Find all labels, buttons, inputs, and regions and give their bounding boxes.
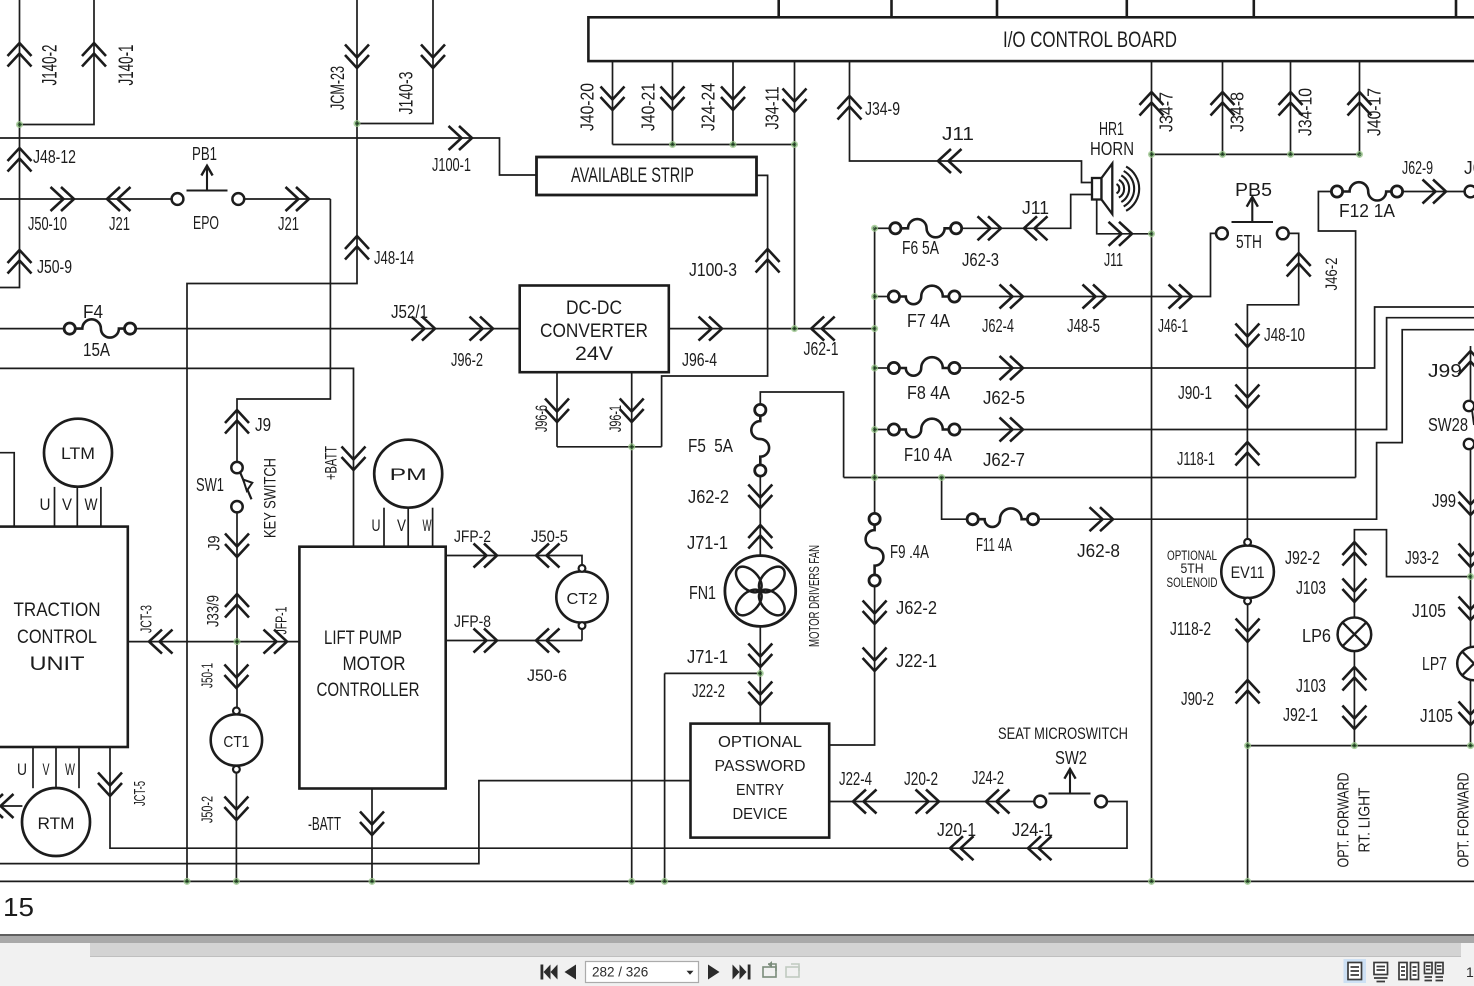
svg-text:OPT. FORWARD: OPT. FORWARD xyxy=(1456,773,1473,868)
svg-text:F4: F4 xyxy=(83,302,103,322)
svg-text:SW28: SW28 xyxy=(1428,415,1468,435)
svg-text:J62-1: J62-1 xyxy=(804,339,839,359)
svg-text:J40-20: J40-20 xyxy=(577,83,597,131)
svg-text:F5 5A: F5 5A xyxy=(688,436,733,456)
svg-text:J92-2: J92-2 xyxy=(1285,548,1320,568)
svg-text:J62: J62 xyxy=(1464,158,1474,178)
svg-text:J99: J99 xyxy=(1432,491,1456,511)
svg-text:F11 4A: F11 4A xyxy=(976,535,1012,555)
svg-text:RTM: RTM xyxy=(38,814,75,833)
svg-text:J62-2: J62-2 xyxy=(896,598,937,618)
svg-text:J34-7: J34-7 xyxy=(1156,92,1176,132)
svg-text:J46-1: J46-1 xyxy=(1158,316,1188,336)
svg-text:W: W xyxy=(85,495,98,514)
svg-text:I/O CONTROL BOARD: I/O CONTROL BOARD xyxy=(1003,27,1177,52)
svg-text:F8 4A: F8 4A xyxy=(907,383,950,403)
svg-text:LP6: LP6 xyxy=(1302,626,1331,646)
svg-text:J62-9: J62-9 xyxy=(1402,158,1433,178)
svg-text:J62-7: J62-7 xyxy=(983,450,1025,470)
svg-text:J46-2: J46-2 xyxy=(1322,258,1341,291)
svg-text:J34-11: J34-11 xyxy=(762,87,782,130)
svg-text:10: 10 xyxy=(1466,964,1474,980)
svg-text:J20-1: J20-1 xyxy=(937,820,976,840)
svg-text:U: U xyxy=(17,760,27,779)
svg-text:ENTRY: ENTRY xyxy=(736,782,784,799)
svg-text:JCT-3: JCT-3 xyxy=(139,605,156,633)
svg-text:J22-4: J22-4 xyxy=(839,769,872,789)
svg-text:J96-4: J96-4 xyxy=(682,350,717,370)
svg-text:OPTIONAL: OPTIONAL xyxy=(718,734,802,751)
svg-text:J96-2: J96-2 xyxy=(451,350,483,370)
svg-text:CONTROLLER: CONTROLLER xyxy=(317,680,420,701)
svg-text:J21: J21 xyxy=(109,214,130,234)
svg-text:JCT-5: JCT-5 xyxy=(132,781,149,806)
svg-text:J22-1: J22-1 xyxy=(896,651,937,671)
svg-text:J52/1: J52/1 xyxy=(391,302,428,322)
svg-text:282 / 326: 282 / 326 xyxy=(592,965,648,980)
svg-text:J50-10: J50-10 xyxy=(28,214,67,234)
svg-text:V: V xyxy=(62,495,73,514)
svg-text:MOTOR DRIVERS FAN: MOTOR DRIVERS FAN xyxy=(807,545,823,647)
svg-text:F10 4A: F10 4A xyxy=(904,445,952,465)
svg-text:J11: J11 xyxy=(1022,198,1049,218)
svg-text:J11: J11 xyxy=(942,124,974,144)
svg-text:J62-8: J62-8 xyxy=(1077,541,1120,561)
svg-text:J50-2: J50-2 xyxy=(200,796,217,823)
svg-text:SEAT MICROSWITCH: SEAT MICROSWITCH xyxy=(998,724,1128,743)
svg-text:SW2: SW2 xyxy=(1055,748,1087,768)
svg-text:J140-2: J140-2 xyxy=(39,45,62,86)
svg-text:J34-9: J34-9 xyxy=(865,99,900,119)
svg-text:U: U xyxy=(372,516,381,535)
svg-text:5TH: 5TH xyxy=(1181,561,1204,576)
svg-text:SW1: SW1 xyxy=(196,475,224,495)
svg-text:HORN: HORN xyxy=(1090,139,1134,159)
svg-text:J99: J99 xyxy=(1428,361,1462,381)
svg-text:J9: J9 xyxy=(255,415,271,435)
svg-text:AVAILABLE STRIP: AVAILABLE STRIP xyxy=(571,164,694,187)
svg-text:J24-2: J24-2 xyxy=(972,768,1004,788)
svg-text:J140-1: J140-1 xyxy=(115,45,138,86)
svg-text:J103: J103 xyxy=(1296,676,1326,696)
svg-text:J24-24: J24-24 xyxy=(698,83,718,131)
svg-text:FN1: FN1 xyxy=(689,583,716,603)
svg-text:F12 1A: F12 1A xyxy=(1339,201,1395,221)
svg-text:CT1: CT1 xyxy=(223,734,249,751)
svg-text:J93-2: J93-2 xyxy=(1405,548,1439,568)
svg-text:J24-1: J24-1 xyxy=(1012,820,1053,840)
svg-text:PB5: PB5 xyxy=(1235,180,1272,200)
svg-text:JCM-23: JCM-23 xyxy=(328,66,349,110)
svg-text:J34-8: J34-8 xyxy=(1227,92,1247,132)
svg-text:J34-10: J34-10 xyxy=(1295,88,1315,136)
svg-text:J48-5: J48-5 xyxy=(1067,316,1100,336)
svg-text:W: W xyxy=(423,516,432,535)
svg-text:J20-2: J20-2 xyxy=(904,769,938,789)
svg-text:UNIT: UNIT xyxy=(30,654,85,675)
svg-text:5TH: 5TH xyxy=(1236,232,1262,252)
svg-text:24V: 24V xyxy=(575,344,613,365)
svg-text:J118-2: J118-2 xyxy=(1170,619,1211,639)
svg-text:J22-2: J22-2 xyxy=(692,681,725,701)
svg-text:PM: PM xyxy=(390,465,427,484)
svg-text:JFP-1: JFP-1 xyxy=(274,606,291,634)
svg-text:J40-21: J40-21 xyxy=(638,83,658,131)
svg-text:J50-6: J50-6 xyxy=(527,666,567,685)
svg-text:HR1: HR1 xyxy=(1099,119,1124,139)
svg-text:J33/9: J33/9 xyxy=(203,595,222,627)
svg-text:OPT. FORWARD: OPT. FORWARD xyxy=(1335,773,1352,868)
svg-text:F7 4A: F7 4A xyxy=(907,311,950,331)
svg-text:J118-1: J118-1 xyxy=(1177,449,1215,469)
svg-text:J40-17: J40-17 xyxy=(1364,88,1384,136)
svg-text:LIFT PUMP: LIFT PUMP xyxy=(324,628,402,649)
svg-text:LTM: LTM xyxy=(61,444,95,463)
svg-text:J62-2: J62-2 xyxy=(688,487,729,507)
svg-text:MOTOR: MOTOR xyxy=(343,654,406,675)
svg-text:J48-10: J48-10 xyxy=(1264,325,1305,345)
svg-text:RT. LIGHT: RT. LIGHT xyxy=(1356,787,1373,852)
svg-text:J90-1: J90-1 xyxy=(1178,383,1212,403)
svg-text:CONTROL: CONTROL xyxy=(17,627,97,648)
svg-text:J62-3: J62-3 xyxy=(962,250,999,270)
svg-text:J105: J105 xyxy=(1412,601,1446,621)
svg-text:CT2: CT2 xyxy=(567,591,598,608)
svg-text:-BATT: -BATT xyxy=(308,814,341,834)
svg-text:J71-1: J71-1 xyxy=(687,533,728,553)
svg-text:J21: J21 xyxy=(278,214,299,234)
svg-text:F6 5A: F6 5A xyxy=(902,238,939,258)
svg-text:PASSWORD: PASSWORD xyxy=(715,758,806,775)
svg-text:+BATT: +BATT xyxy=(321,446,340,480)
svg-text:J50-5: J50-5 xyxy=(531,527,568,546)
svg-text:KEY SWITCH: KEY SWITCH xyxy=(260,458,279,538)
svg-text:V: V xyxy=(43,760,50,779)
svg-text:CONVERTER: CONVERTER xyxy=(540,321,648,342)
svg-text:J48-14: J48-14 xyxy=(374,248,414,268)
svg-text:J62-4: J62-4 xyxy=(982,316,1014,336)
svg-text:J100-1: J100-1 xyxy=(432,155,471,175)
svg-text:SOLENOID: SOLENOID xyxy=(1167,575,1218,590)
svg-text:J90-2: J90-2 xyxy=(1181,689,1214,709)
svg-text:J92-1: J92-1 xyxy=(1283,705,1318,725)
svg-text:W: W xyxy=(65,760,75,779)
svg-text:J96-6: J96-6 xyxy=(532,405,551,432)
svg-text:EV11: EV11 xyxy=(1231,563,1265,582)
svg-text:LP7: LP7 xyxy=(1422,654,1447,674)
svg-text:DC-DC: DC-DC xyxy=(566,298,622,319)
svg-text:J62-5: J62-5 xyxy=(983,388,1025,408)
svg-text:U: U xyxy=(40,495,51,514)
svg-text:DEVICE: DEVICE xyxy=(733,806,788,823)
svg-text:J96-1: J96-1 xyxy=(606,405,625,432)
svg-text:TRACTION: TRACTION xyxy=(14,600,101,621)
svg-text:J9: J9 xyxy=(204,536,223,551)
svg-text:PB1: PB1 xyxy=(192,144,217,164)
svg-text:J103: J103 xyxy=(1296,578,1326,598)
svg-text:J11: J11 xyxy=(1104,250,1123,270)
svg-text:V: V xyxy=(397,516,407,535)
svg-text:J48-12: J48-12 xyxy=(33,147,76,167)
svg-text:J71-1: J71-1 xyxy=(687,647,728,667)
svg-text:J50-1: J50-1 xyxy=(200,663,217,688)
svg-text:F9 .4A: F9 .4A xyxy=(890,542,929,562)
svg-text:JFP-8: JFP-8 xyxy=(454,612,491,631)
svg-text:15A: 15A xyxy=(83,340,110,360)
svg-text:J140-3: J140-3 xyxy=(397,72,418,115)
svg-text:15: 15 xyxy=(3,892,34,922)
svg-text:J105: J105 xyxy=(1420,706,1453,726)
svg-text:EPO: EPO xyxy=(193,213,219,233)
svg-text:JFP-2: JFP-2 xyxy=(454,527,491,546)
svg-text:J100-3: J100-3 xyxy=(689,260,737,280)
svg-text:J50-9: J50-9 xyxy=(37,257,72,277)
